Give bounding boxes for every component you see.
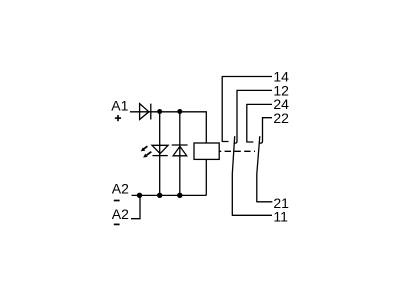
wire diode branch [179,112,181,196]
wire contact 24 lead [247,104,272,142]
wire A2 lower jumper [131,195,140,218]
wire coil to bottom rail [205,159,207,195]
junction node top left [157,109,162,114]
wire bottom rail A2 [132,194,207,196]
terminal label A2 lower [112,206,129,224]
junction node top right [177,109,182,114]
relay coil K1 [194,143,219,159]
junction node A2 branch [137,193,142,198]
diode D1 [140,104,151,120]
wire contact 12 lead hook [234,90,272,143]
wire top rail A1 to coil [130,112,206,143]
terminal label A2 upper [112,180,129,200]
LED indicator [152,145,168,155]
LED arrow 2 [143,152,151,158]
junction node diode bottom [177,193,182,198]
terminal label A1 [111,98,128,122]
svg-text:A2: A2 [112,206,129,222]
wire contact 22 lead hook [259,118,272,143]
diode D2 freewheel [172,145,188,156]
svg-text:11: 11 [273,208,288,224]
wire contact 14 lead [222,77,272,142]
movable contact arm 11 [232,136,272,215]
LED arrow 1 [141,146,148,151]
svg-text:22: 22 [273,110,289,126]
wire LED branch [159,112,161,196]
junction node LED bottom [157,193,162,198]
mechanical linkage dashed [219,150,255,152]
svg-text:A1: A1 [111,98,128,114]
movable contact arm 21 [257,136,273,202]
svg-text:A2: A2 [112,180,129,196]
